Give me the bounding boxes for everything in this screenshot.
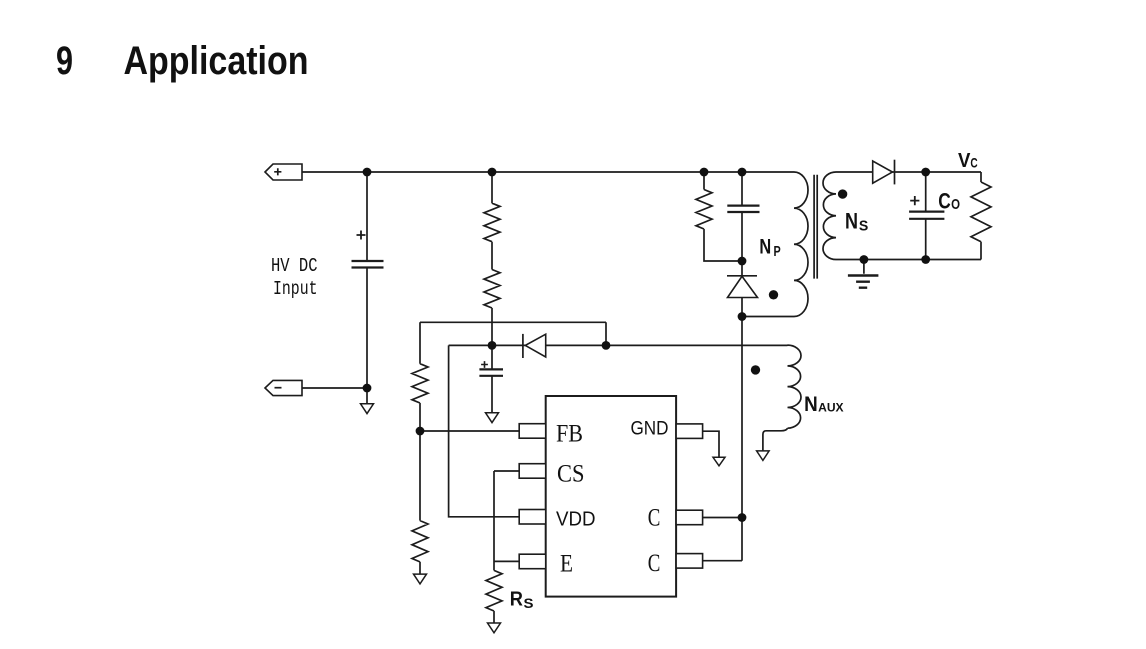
svg-text:Input: Input (273, 278, 318, 300)
svg-text:C: C (648, 505, 661, 532)
svg-text:S: S (859, 218, 868, 235)
svg-text:O: O (951, 196, 960, 213)
svg-text:E: E (560, 551, 573, 578)
svg-text:C: C (970, 154, 977, 170)
svg-text:FB: FB (556, 421, 583, 448)
svg-text:N: N (804, 393, 818, 416)
svg-text:9: 9 (56, 39, 73, 83)
svg-text:AUX: AUX (818, 403, 844, 415)
svg-text:C: C (938, 188, 951, 213)
svg-text:GND: GND (631, 419, 669, 440)
svg-text:C: C (648, 550, 661, 577)
svg-text:VDD: VDD (556, 509, 596, 531)
svg-text:CS: CS (557, 461, 585, 488)
svg-text:S: S (524, 595, 534, 611)
svg-text:N: N (845, 209, 858, 234)
svg-text:P: P (774, 243, 781, 260)
svg-text:V: V (958, 150, 971, 172)
svg-text:R: R (510, 588, 524, 610)
svg-text:Application: Application (124, 39, 309, 83)
svg-text:HV DC: HV DC (271, 255, 318, 277)
svg-text:N: N (759, 236, 771, 259)
